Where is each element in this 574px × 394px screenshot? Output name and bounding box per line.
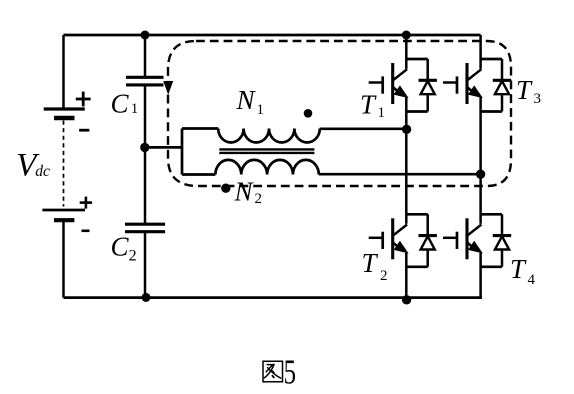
wire T4 emitter [479, 253, 482, 298]
svg-text:N: N [234, 177, 255, 207]
svg-text:1: 1 [131, 101, 139, 117]
label T1 [360, 90, 385, 122]
battery V_dc cell 1 positive plate [44, 107, 85, 110]
wire capacitor midpoint to winding [145, 146, 182, 149]
wire T2 emitter [405, 253, 408, 298]
label N1 [236, 85, 265, 118]
label T2 [362, 248, 388, 284]
node T1 emitter / N1 junction [402, 125, 411, 134]
svg-text:C: C [111, 231, 130, 261]
label T4 [510, 254, 536, 288]
caption text 5 [284, 352, 296, 391]
wire T1 collector [405, 35, 408, 69]
svg-text:N: N [236, 85, 257, 115]
label C1 [111, 89, 139, 119]
node capacitor midpoint [140, 143, 149, 152]
battery minus sign cell 2 [82, 230, 90, 233]
battery V_dc cell 2 negative plate [54, 218, 74, 222]
winding N2 [215, 160, 318, 175]
svg-text:T: T [360, 90, 377, 120]
transistor T4 [443, 214, 511, 266]
transistor T3 [443, 59, 511, 112]
wire winding common vertical [181, 129, 184, 175]
wire top rail [64, 34, 481, 37]
wire bottom rail [64, 296, 483, 299]
node bottom rail / T2 leg junction [402, 295, 411, 304]
wire N1 left lead [182, 127, 218, 130]
wire left rail upper [62, 35, 65, 109]
wire N1 to T1 emitter [320, 127, 407, 130]
wire left rail lower [62, 220, 65, 297]
wire capacitor rail upper [144, 35, 147, 77]
svg-text:5: 5 [284, 352, 296, 391]
node bottom rail / capacitor rail junction [142, 293, 151, 302]
dashed enclosure box [168, 41, 511, 186]
polarity dot N1 [304, 109, 313, 118]
polarity dot N2 [221, 184, 230, 193]
winding N1 [218, 129, 320, 143]
svg-text:2: 2 [255, 191, 263, 207]
label C2 [111, 231, 137, 264]
label N2 [234, 177, 263, 208]
transistor T2 [369, 214, 437, 266]
svg-text:1: 1 [378, 105, 386, 121]
wire capacitor rail lower [144, 232, 147, 298]
svg-text:T: T [362, 248, 379, 278]
transformer core [219, 149, 314, 153]
capacitor C1 [126, 77, 164, 85]
wire capacitor rail middle [144, 85, 147, 224]
transistor T1 [369, 59, 437, 112]
svg-text:dc: dc [35, 163, 50, 180]
svg-text:3: 3 [534, 91, 542, 107]
battery V_dc cell 1 negative plate [54, 116, 75, 121]
wire T3 emitter to T4 collector [479, 98, 482, 224]
svg-text:2: 2 [129, 247, 137, 264]
label T3 [516, 75, 541, 107]
label V_dc [16, 147, 50, 183]
battery V_dc cell 2 positive plate [42, 209, 85, 212]
battery minus sign cell 1 [79, 129, 89, 132]
node top rail / capacitor rail junction [141, 31, 150, 40]
svg-text:C: C [111, 89, 130, 119]
svg-text:1: 1 [257, 102, 265, 118]
svg-text:2: 2 [380, 268, 388, 284]
wire N2 to T3 emitter [319, 173, 481, 176]
capacitor C2 [125, 224, 165, 232]
node T3 emitter / N2 junction [476, 170, 485, 179]
battery dashed link between cells [63, 121, 65, 207]
battery plus sign cell 1 [76, 92, 91, 107]
node top rail / T1 leg junction [402, 31, 411, 40]
caption glyph 图 [263, 361, 283, 382]
svg-text:4: 4 [528, 272, 536, 288]
svg-text:T: T [516, 75, 533, 105]
dashed box arrow [163, 81, 173, 95]
wire T1 emitter to T2 collector [405, 98, 408, 224]
wire N2 left lead [182, 173, 215, 176]
wire T3 collector [479, 35, 482, 69]
svg-text:T: T [510, 254, 527, 284]
battery plus sign cell 2 [80, 197, 92, 209]
